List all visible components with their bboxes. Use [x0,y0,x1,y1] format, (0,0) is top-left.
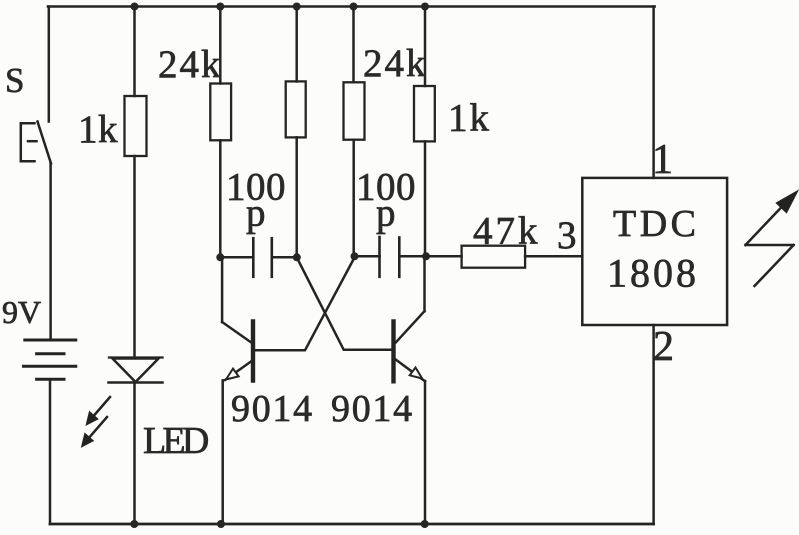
svg-text:S: S [5,61,24,100]
wire R6 to TDC pin 3 [525,255,582,258]
wire LED to bottom rail [133,383,136,524]
junction bottom rail at Q2 emitter [421,520,429,528]
wire R4 to C2 node [352,140,355,257]
junction top rail at R1 [131,3,139,11]
wire top supply rail [48,5,655,8]
svg-text:1808: 1808 [607,251,699,296]
LED D1 [109,358,163,383]
capacitor C2 100p [355,237,427,277]
svg-text:9014: 9014 [231,388,314,430]
resistor R2 24k [210,84,231,141]
resistor R6 47k [462,246,525,268]
wire R1 to LED [133,156,136,357]
junction top rail at R4 [350,3,358,11]
svg-text:1k: 1k [448,97,491,140]
svg-text:9V: 9V [2,294,41,330]
wire R2 to C1 node [219,140,222,257]
resistor R4 24k [344,82,365,139]
resistor R5 1k [414,86,435,141]
wire bottom ground rail [50,523,654,526]
wire left rail top (rail to switch) [48,7,51,122]
wire Q2 collector (C2 right node down) [423,256,426,311]
wire top rail to pin 1 [652,7,655,178]
wire switch to battery [49,163,52,340]
wire top rail to R3 [295,7,298,82]
junction C1 right node [293,253,301,261]
wire Q2 base cross-coupling to C1 right node [297,258,392,350]
junction C1 left node [216,253,224,261]
junction top rail at R5 [421,3,429,11]
transistor Q1 9014 [222,322,253,381]
svg-text:2: 2 [653,324,674,370]
junction top rail at R3 [293,3,301,11]
junction bottom rail at Q1 emitter [217,520,225,528]
junction top rail at R2 [216,3,224,11]
junction bottom rail at LED [130,520,138,528]
svg-text:LED: LED [143,420,208,462]
resistor R3 [286,81,306,137]
svg-text:1: 1 [652,137,673,183]
switch S [21,122,51,164]
wire C2 node to R6 [426,255,462,258]
capacitor C1 100p [220,238,296,277]
svg-text:1k: 1k [78,108,118,151]
svg-text:9014: 9014 [331,388,414,430]
wire Q1 collector (C1 node down) [221,257,224,322]
svg-text:47k: 47k [473,210,541,253]
wire top rail to R5 [424,7,427,87]
wire top rail to R4 [352,7,355,83]
RF output arrow [746,191,798,286]
wire R5 to C2 right node [424,141,427,256]
svg-text:p: p [246,192,266,235]
junction C2 right node [422,252,430,260]
wire Q2 emitter to bottom rail [424,381,427,524]
svg-text:24k: 24k [363,42,428,85]
IC U1 TDC1808 [582,178,727,325]
wire pin 2 to bottom rail [652,325,655,524]
svg-text:p: p [376,192,396,235]
wire Q1 base cross-coupling to C2 node [255,258,354,351]
svg-text:TDC: TDC [613,203,700,245]
transistor Q2 9014 [394,311,426,381]
wire top rail to R2 [219,7,222,84]
battery B1 9V [24,340,76,379]
resistor R1 1k [125,96,147,156]
wire R3 to C1 right node [295,137,298,257]
LED light emission arrows [82,397,110,446]
svg-text:3: 3 [557,214,577,257]
svg-text:24k: 24k [158,43,223,86]
wire top rail to R1 [133,7,136,97]
wire battery to bottom rail [49,381,52,525]
wire Q1 emitter to bottom rail [221,380,224,524]
junction C2 left node [351,252,359,260]
